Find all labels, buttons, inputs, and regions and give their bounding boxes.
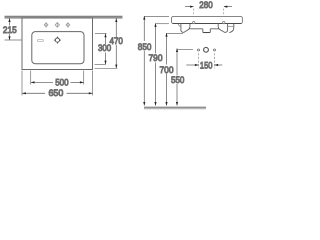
dim 300 (right of plan, inner) — [95, 33, 107, 64]
svg-text:650: 650 — [49, 88, 64, 99]
dim 790 line — [154, 23, 169, 105]
back edge tail right — [229, 24, 234, 33]
bowl (inner rounded rectangle) — [32, 32, 84, 64]
front lip under slab left — [178, 24, 180, 27]
svg-text:500: 500 — [55, 77, 68, 88]
overflow slot — [37, 40, 43, 42]
fixing hole circle left — [193, 21, 195, 23]
faucet hole symbol — [54, 37, 61, 44]
tap hole diamond right — [66, 22, 70, 27]
basin outline (plan view rectangle 650x470) — [22, 18, 93, 70]
svg-text:850: 850 — [138, 42, 152, 53]
underside line between brackets — [189, 28, 220, 30]
drain cap — [203, 29, 211, 33]
dim 850 line — [143, 16, 169, 106]
dim 215 (wall to tap hole) — [5, 18, 23, 40]
right mounting bracket — [218, 23, 227, 32]
svg-text:150: 150 — [200, 60, 213, 71]
svg-text:215: 215 — [3, 25, 17, 36]
dim 650 (bottom, overall width) — [22, 71, 93, 96]
wall line (plan view, top bar) — [5, 16, 123, 18]
floor line with hatch — [144, 107, 206, 109]
dim 280 (fixing holes) — [185, 6, 232, 16]
svg-text:550: 550 — [171, 75, 184, 86]
tap hole diamond left — [44, 22, 48, 27]
wall fitting big circle — [204, 47, 209, 52]
left mounting bracket — [181, 23, 190, 32]
svg-text:470: 470 — [110, 36, 123, 47]
dim 470 (right of plan, outer) — [95, 18, 118, 68]
wall fitting small circle right — [214, 49, 216, 51]
rim slab — [172, 16, 243, 23]
svg-text:790: 790 — [149, 53, 163, 64]
dim 500 (bottom, bowl width) — [31, 71, 84, 85]
wall fitting small circle left — [198, 49, 200, 51]
svg-text:280: 280 — [199, 0, 212, 11]
dim 550 line — [176, 48, 193, 105]
dim 150 (between fittings) — [186, 53, 222, 68]
fixing hole circle right — [223, 21, 225, 23]
dim 700 line — [165, 33, 183, 106]
tap hole diamond center — [55, 22, 59, 28]
